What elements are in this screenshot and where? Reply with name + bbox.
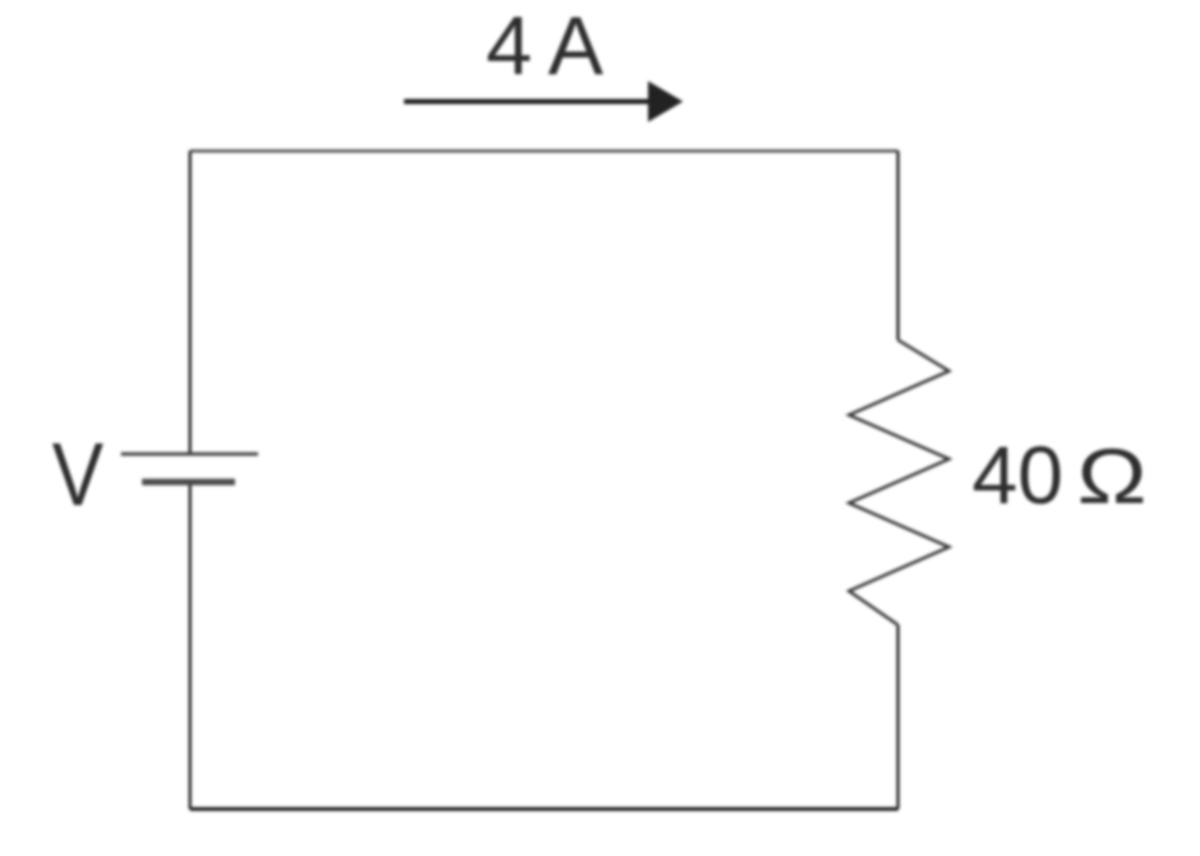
svg-text:Ω: Ω [1077, 433, 1147, 520]
current arrow head [648, 81, 683, 122]
resistor 40 ohm zigzag [849, 340, 949, 625]
wire right bottom segment [897, 625, 900, 809]
svg-text:V: V [52, 425, 104, 524]
battery V (voltage source) long plate [121, 452, 258, 455]
svg-text:4: 4 [486, 0, 532, 92]
wire bottom [190, 807, 898, 810]
battery V (voltage source) short thick plate [142, 479, 235, 486]
svg-text:40: 40 [972, 430, 1063, 521]
current arrow shaft (4 A) [404, 99, 652, 104]
wire left top segment [189, 151, 192, 453]
wire top [190, 150, 898, 153]
wire left bottom segment [189, 483, 192, 809]
wire right top segment [897, 151, 900, 340]
svg-text:A: A [548, 0, 604, 92]
